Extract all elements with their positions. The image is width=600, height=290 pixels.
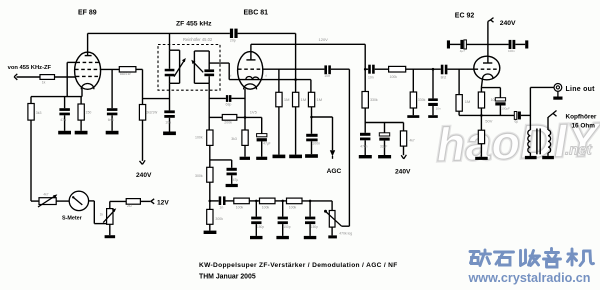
- wire to transformer secondary: [547, 117, 549, 130]
- tube EBC81 V2 envelope: [238, 52, 263, 90]
- EF89 grid g3 dashed: [76, 61, 99, 63]
- wire 20p to diode line: [238, 33, 296, 79]
- EC92 grid dashed: [475, 68, 500, 70]
- output transformer: [528, 129, 551, 155]
- ground under 10n gnd: [428, 115, 438, 118]
- resistor 1M no1: [276, 69, 282, 154]
- capacitor 20p feedback: [230, 29, 238, 38]
- wire 10n cap down to pot wiper: [331, 69, 350, 226]
- supply tick 240V left: [140, 160, 146, 164]
- svg-text:4k7: 4k7: [43, 192, 48, 196]
- svg-text:1n: 1n: [219, 205, 223, 209]
- ground under 47n: [58, 131, 71, 135]
- wire secondary to ground: [547, 153, 549, 156]
- svg-text:d: d: [230, 74, 232, 78]
- svg-text:Kopfhörer: Kopfhörer: [566, 113, 597, 120]
- junction dot 1V5 node: [244, 116, 247, 119]
- capacitor 150p AF no1: [251, 201, 261, 236]
- capacitor 8n2 grid coupling: [441, 65, 448, 75]
- resistor 330k to ground: [410, 69, 416, 115]
- cathode node wire: [459, 114, 514, 116]
- filter output wire to diode: [209, 63, 229, 80]
- ground under 33uF: [378, 155, 391, 158]
- EBC81 grid dashed: [238, 68, 262, 70]
- wire 3k3 down to S-meter row: [30, 120, 32, 201]
- resistor 100k AF no2: [260, 198, 287, 204]
- capacitor 470n supply: [360, 123, 370, 156]
- wire screen resistor to B+ node: [136, 69, 143, 104]
- tuned circuit L2C2 secondary: [194, 51, 214, 83]
- ground under pot: [328, 235, 337, 238]
- junction dot AGC tap: [310, 116, 313, 119]
- svg-text:150p: 150p: [311, 225, 318, 229]
- svg-text:10n: 10n: [324, 74, 330, 78]
- headphone tick: [548, 111, 556, 118]
- svg-text:Line out: Line out: [566, 86, 596, 93]
- input connector chevron: [14, 74, 17, 80]
- resistor 200k bias: [209, 115, 262, 121]
- resistor 100k AF no3: [287, 198, 333, 204]
- resistor 1k (grid stopper): [40, 75, 55, 80]
- svg-text:6n8: 6n8: [108, 118, 114, 122]
- ground under 150p no1: [250, 236, 263, 239]
- anode top wire: [88, 32, 230, 34]
- ground under primary: [525, 156, 537, 159]
- EBC81 grid wire to volume pickup: [262, 68, 324, 70]
- ground under 150p no2: [276, 236, 289, 239]
- svg-text:KW-Doppelsuper ZF-Verstärker /: KW-Doppelsuper ZF-Verstärker / Demodulat…: [199, 262, 398, 269]
- svg-text:4µ7: 4µ7: [460, 49, 465, 53]
- resistor 100 cathode EC92: [478, 92, 484, 108]
- EBC81 cathode arc: [244, 84, 257, 89]
- EC92 grid chain wire: [365, 68, 474, 70]
- ground bar right decoupling: [525, 40, 528, 48]
- tube EF89 V1 envelope: [75, 52, 101, 89]
- ground under 1k trimmer: [105, 235, 116, 238]
- ground under 1M no1: [273, 155, 286, 159]
- svg-text:470n: 470n: [360, 145, 367, 149]
- ground under 100n AGC: [305, 154, 318, 158]
- capacitor 47uF cathode bypass: [257, 117, 267, 156]
- tube EC92 V3 envelope: [474, 56, 500, 80]
- resistor 330k decoupling: [362, 92, 368, 123]
- svg-text:EF 89: EF 89: [78, 9, 97, 16]
- wire trimmer to meter: [56, 200, 69, 202]
- svg-text:6k8/1W: 6k8/1W: [120, 72, 131, 76]
- svg-text:120V: 120V: [319, 37, 329, 42]
- resistor 3k3 cathode EBC81: [242, 130, 248, 157]
- svg-text:200k: 200k: [224, 120, 232, 124]
- wire B+ node to ZF filter foot: [143, 98, 170, 100]
- screen g2 wire to resistor: [100, 68, 119, 70]
- capacitor 1n AF coupling: [210, 196, 234, 205]
- output node wire: [529, 87, 531, 130]
- wire to S-meter row: [31, 200, 39, 202]
- svg-text:150p: 150p: [257, 225, 264, 229]
- capacitor 150p AF no2: [278, 201, 288, 236]
- ground under 47uF: [256, 157, 267, 160]
- ground under 47u: [226, 184, 238, 187]
- capacitor 6n8 screen bypass: [107, 69, 118, 130]
- svg-text:100k: 100k: [236, 205, 244, 209]
- EF89 grid g1 dashed: [76, 75, 100, 77]
- wire secondary foot down: [208, 83, 210, 130]
- resistor 300k upper: [207, 167, 213, 201]
- EF89 anode bar and lead: [85, 33, 92, 55]
- wire primary to ground: [529, 153, 531, 156]
- svg-text:150: 150: [86, 111, 92, 115]
- capacitor 10n to ground: [428, 69, 438, 115]
- junction dot 10n gnd tap: [432, 68, 435, 71]
- svg-text:100k: 100k: [195, 135, 203, 139]
- capacitor 10n grid chain: [368, 65, 375, 74]
- cathode bus wire: [31, 96, 82, 98]
- svg-text:3k3: 3k3: [231, 137, 237, 141]
- svg-text:150p: 150p: [283, 225, 290, 229]
- svg-text:470k log: 470k log: [339, 232, 352, 236]
- supply node wire: [365, 122, 403, 124]
- AGC arrow: [330, 150, 335, 159]
- decoupling bus wire: [450, 43, 525, 45]
- wire input to R 1k: [17, 76, 41, 78]
- supply tick 240V top: [488, 18, 494, 23]
- S-meter instrument: [69, 191, 88, 210]
- ground under 150: [75, 131, 88, 135]
- wire trimmer to 2k2: [110, 200, 126, 202]
- ground under 330k no2: [407, 115, 419, 118]
- capacitor 68p cathode coupling: [209, 95, 245, 102]
- svg-text:2k2: 2k2: [127, 204, 132, 208]
- resistor 2k2 meter feed: [126, 199, 150, 205]
- svg-text:THM Januar 2005: THM Januar 2005: [199, 273, 256, 280]
- capacitor 10n filter foot: [164, 110, 175, 131]
- svg-text:33µF: 33µF: [380, 145, 387, 149]
- svg-text:1k: 1k: [42, 80, 46, 84]
- junction dot grid chain: [364, 68, 367, 71]
- svg-text:1V5: 1V5: [250, 109, 258, 114]
- wire AF to volume pot: [331, 201, 333, 211]
- junction dot diode line: [294, 78, 297, 81]
- capacitor 100n decoupling right: [509, 40, 516, 49]
- resistor 3k3 (S-meter feed): [28, 104, 34, 121]
- resistor 100k grid chain: [389, 66, 406, 72]
- L2 tuning arrow: [191, 60, 203, 73]
- tuned circuit L1C1 primary: [165, 50, 180, 83]
- svg-text:4k7: 4k7: [410, 138, 415, 142]
- capacitor 100n AGC filter: [306, 134, 317, 154]
- EC92 anode supply lead: [487, 21, 489, 63]
- EC92 anode bar: [483, 62, 492, 64]
- ground under 1M no2: [289, 155, 302, 159]
- ground under lower resistor: [475, 157, 488, 160]
- capacitor 150p AF no3: [305, 201, 315, 236]
- capacitor 6u output coupling: [514, 112, 530, 120]
- AGC takeoff wire: [312, 117, 333, 150]
- svg-text:300k: 300k: [215, 217, 223, 221]
- svg-text:50V: 50V: [485, 118, 492, 123]
- capacitor 47u AF decoupling: [210, 160, 237, 184]
- resistor 100k diode load: [207, 130, 213, 167]
- L1 tuning arrow: [174, 58, 186, 77]
- EF89 cathode arc: [81, 83, 94, 89]
- svg-text:ZF 455 kHz: ZF 455 kHz: [176, 20, 212, 27]
- line out wire: [530, 86, 554, 88]
- ground under 470n: [359, 155, 372, 158]
- svg-text:8n2: 8n2: [441, 76, 447, 80]
- junction dot cathode node: [480, 114, 483, 117]
- svg-text:3k3: 3k3: [36, 111, 42, 115]
- EF89 grid g2 dashed: [75, 68, 100, 70]
- trimmer 1k bridge: [103, 201, 116, 235]
- EC92 cathode arc: [483, 74, 494, 79]
- svg-text:1k: 1k: [100, 212, 104, 216]
- svg-text:6µ: 6µ: [515, 120, 519, 124]
- junction dot AF no2: [281, 200, 284, 203]
- svg-text:20p: 20p: [230, 39, 236, 43]
- EBC81 anode bar and lead: [246, 44, 255, 60]
- svg-text:100n: 100n: [508, 49, 515, 53]
- wire down into ZF filter: [169, 33, 171, 50]
- svg-text:10n: 10n: [368, 75, 374, 79]
- capacitor 100uF cathode: [495, 98, 505, 116]
- pot wiper arm: [324, 210, 349, 226]
- watermark haoDIY.net: [435, 112, 600, 171]
- svg-text:.net: .net: [565, 142, 593, 159]
- svg-text:47µF: 47µF: [263, 141, 270, 145]
- EC92 cathode lead: [481, 79, 482, 88]
- supply tick 12V: [151, 199, 154, 204]
- svg-text:1M: 1M: [284, 97, 290, 102]
- svg-text:240V: 240V: [136, 172, 152, 179]
- svg-text:1M: 1M: [317, 97, 323, 102]
- svg-text:240V: 240V: [500, 20, 516, 27]
- resistor 4k7 supply: [400, 123, 406, 156]
- svg-text:100k: 100k: [289, 205, 297, 209]
- svg-text:10n: 10n: [165, 120, 171, 124]
- potentiometer 470k log: [329, 211, 335, 236]
- svg-text:47µ: 47µ: [233, 178, 239, 182]
- wire R 1k to EF89 grid g1: [55, 76, 76, 78]
- junction dot AF node: [209, 200, 212, 203]
- resistor lower EC92: [478, 130, 484, 157]
- svg-text:Reinhöfer 45.02: Reinhöfer 45.02: [183, 37, 213, 42]
- svg-text:100µF: 100µF: [501, 106, 510, 110]
- wire 2k2 to 240V arrow: [142, 120, 144, 161]
- svg-text:330k: 330k: [418, 98, 426, 102]
- svg-text:240V: 240V: [395, 168, 411, 175]
- resistor 150 cathode: [78, 97, 84, 131]
- wire bus to R 3k3: [30, 97, 32, 104]
- bandfilter dashed box Reinhoefer: [158, 45, 220, 91]
- svg-text:68p: 68p: [226, 103, 232, 107]
- wire g3 to cathode bus: [67, 62, 76, 96]
- resistor 300k lower: [207, 201, 213, 231]
- resistor 1M no3: [308, 80, 314, 134]
- svg-text:47n: 47n: [60, 118, 66, 122]
- svg-text:300k: 300k: [195, 174, 203, 178]
- svg-text:16 Ohm: 16 Ohm: [572, 123, 596, 130]
- EF89 cathode lead: [81, 89, 83, 97]
- capacitor 47n cathode bypass: [59, 97, 70, 131]
- capacitor 4u7 decoupling left: [460, 40, 466, 49]
- svg-text:EC 92: EC 92: [455, 12, 475, 19]
- resistor 100k AF no1: [234, 198, 260, 204]
- wire meter to bridge trimmer: [89, 201, 107, 224]
- ground under 300k lower: [204, 231, 217, 234]
- ground under 150p no3: [304, 236, 317, 239]
- svg-text:1M: 1M: [301, 97, 307, 102]
- EBC81 diode line with plates: [229, 77, 311, 80]
- ground bar left decoupling: [447, 40, 450, 48]
- EBC81 cathode lead to 1V5 node: [244, 89, 246, 130]
- anode 120V wire: [251, 43, 365, 45]
- svg-text:d: d: [265, 74, 267, 78]
- svg-text:von 455 KHz-ZF: von 455 KHz-ZF: [8, 65, 52, 71]
- wire primary foot to 10n decoupling: [169, 83, 171, 110]
- svg-text:12V: 12V: [157, 199, 169, 206]
- resistor 6k8/1W screen feed: [119, 67, 136, 72]
- svg-text:S-Meter: S-Meter: [62, 215, 83, 221]
- svg-text:AGC: AGC: [327, 168, 342, 175]
- capacitor 10n volume coupling: [324, 65, 331, 74]
- junction dot AF no3: [309, 200, 312, 203]
- supply tick 240V mid: [401, 155, 406, 159]
- resistor 1M grid leak: [456, 69, 462, 115]
- wire 100 to lower resistor: [480, 108, 482, 130]
- ground under 3k3 EBC81: [240, 157, 250, 160]
- capacitor 33uF supply: [379, 123, 389, 156]
- svg-text:1M: 1M: [465, 99, 471, 104]
- cathode split wire: [481, 88, 500, 98]
- svg-text:100k: 100k: [390, 75, 398, 79]
- ground under line out: [553, 91, 562, 99]
- svg-text:100k: 100k: [262, 205, 270, 209]
- ground under 6n8: [106, 131, 119, 135]
- svg-text:2k2/1W: 2k2/1W: [146, 110, 157, 114]
- svg-text:10n: 10n: [436, 106, 441, 110]
- svg-text:EBC 81: EBC 81: [244, 9, 269, 16]
- resistor 1M no2: [293, 80, 299, 155]
- trimmer 4k7 S-meter: [38, 194, 57, 207]
- svg-text:100n: 100n: [312, 142, 320, 146]
- svg-text:www.crystalradio.cn: www.crystalradio.cn: [468, 271, 591, 285]
- junction dot AF no1: [255, 200, 258, 203]
- wire 120V to EC92 branch: [364, 44, 366, 91]
- ground under secondary: [542, 156, 554, 159]
- line out connector: [554, 84, 562, 92]
- svg-text:330k: 330k: [370, 98, 378, 102]
- watermark crystalradio chinese: [470, 249, 594, 268]
- resistor 2k2/1W supply dropper: [139, 105, 145, 121]
- ground under filter 10n: [163, 132, 176, 136]
